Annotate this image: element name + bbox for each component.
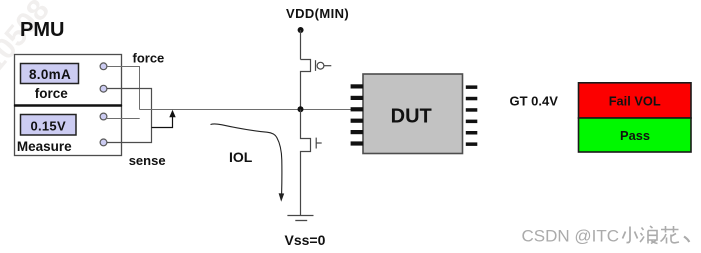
svg-text:Pass: Pass bbox=[620, 128, 650, 143]
PMU measure unit box bbox=[15, 106, 122, 156]
svg-text:force: force bbox=[133, 51, 165, 66]
Q1 gate bubble bbox=[317, 62, 324, 69]
pass box bbox=[579, 118, 692, 152]
svg-text:sense: sense bbox=[129, 153, 166, 168]
sense arrow to node bbox=[152, 116, 173, 128]
DUT left pins bbox=[351, 84, 364, 145]
transistor Q1 PMOS channel path bbox=[301, 60, 311, 110]
Q1 gate line bbox=[315, 60, 317, 71]
terminal T2 bbox=[100, 85, 107, 92]
Q2 gate line bbox=[315, 138, 317, 149]
svg-text:VDD(MIN): VDD(MIN) bbox=[286, 6, 349, 21]
svg-text:force: force bbox=[35, 86, 69, 101]
glyph xiao bbox=[623, 227, 638, 243]
PMU force unit box bbox=[15, 55, 122, 106]
wire VDD to PMOS bbox=[300, 30, 302, 60]
watermark digits background bbox=[0, 0, 56, 78]
node junction dot bbox=[298, 106, 304, 112]
DUT body U1 bbox=[363, 74, 463, 154]
value box 0.15V bbox=[21, 115, 77, 136]
svg-text:Fail VOL: Fail VOL bbox=[609, 93, 661, 108]
svg-text:8.0mA: 8.0mA bbox=[29, 67, 71, 82]
terminal T4 bbox=[100, 139, 107, 146]
wire sense T3 stub bbox=[107, 118, 140, 120]
value box 8.0mA bbox=[21, 64, 79, 84]
terminal T3 sense bbox=[100, 113, 107, 120]
fail box bbox=[579, 83, 692, 118]
svg-text:GT 0.4V: GT 0.4V bbox=[510, 94, 559, 109]
svg-text:PMU: PMU bbox=[20, 19, 64, 41]
Q1 gate lead bbox=[324, 65, 331, 67]
svg-text:DUT: DUT bbox=[391, 106, 432, 128]
glyph comma bbox=[684, 237, 689, 243]
Q2 gate lead bbox=[316, 142, 322, 144]
CSDN watermark bbox=[522, 226, 690, 245]
svg-text:Vss=0: Vss=0 bbox=[285, 232, 326, 248]
glyph lang bbox=[640, 226, 658, 244]
svg-text:Measure: Measure bbox=[17, 139, 72, 154]
main wire node to DUT bbox=[140, 109, 352, 111]
wire force T1 to node bbox=[107, 67, 140, 110]
svg-text:IOL: IOL bbox=[229, 149, 253, 165]
DUT right pins bbox=[466, 85, 478, 145]
transistor Q2 NMOS channel path bbox=[301, 110, 311, 216]
ground bbox=[287, 215, 313, 217]
wire T2 down to T4 loop bbox=[107, 89, 152, 143]
divider edge bbox=[14, 104, 122, 107]
svg-text:CSDN @ITC: CSDN @ITC bbox=[522, 226, 620, 245]
terminal T1 force bbox=[100, 63, 107, 70]
VDD node dot bbox=[298, 27, 304, 33]
glyph hua bbox=[661, 226, 680, 244]
IOL current arrow bbox=[211, 124, 282, 194]
svg-text:0.15V: 0.15V bbox=[30, 119, 66, 134]
